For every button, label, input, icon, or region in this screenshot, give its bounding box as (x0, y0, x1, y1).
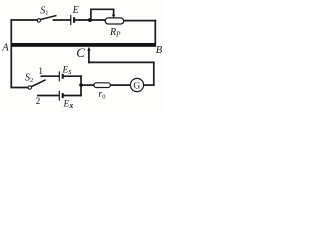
wire r0 to G (110, 84, 131, 86)
wire S1 contact to battery E (54, 19, 71, 21)
wire Ex to join rail (63, 95, 81, 97)
switch S2 (28, 80, 46, 89)
svg-text:C: C (76, 45, 85, 60)
wire galvo right vertical (153, 62, 155, 85)
wire Es to join rail (63, 75, 81, 77)
wire Rp pill to right corner (124, 20, 156, 22)
svg-text:2: 2 (36, 96, 41, 106)
svg-text:E: E (72, 5, 79, 16)
svg-text:Es: Es (62, 66, 72, 76)
wire top from corner to switch S1 (11, 19, 37, 21)
battery Es plates (59, 71, 62, 81)
wire bottom-left to S2 (11, 87, 27, 89)
wire left rail (10, 20, 12, 88)
svg-text:B: B (156, 45, 163, 56)
slider C arrowhead (87, 47, 90, 51)
wire wiper loop up and over (91, 9, 114, 19)
battery Ex plates (59, 91, 62, 101)
node junction dot bottom (79, 83, 83, 87)
resistor Rp body (105, 18, 124, 24)
wire slider C drop (88, 50, 90, 63)
wire junction to r0 (81, 84, 94, 86)
wire G to right drop (144, 84, 154, 86)
switch S1 (37, 16, 56, 23)
wire galvo horizontal under AB (89, 61, 154, 63)
wire join rail vertical (80, 76, 82, 95)
svg-text:G: G (133, 82, 140, 92)
svg-text:1: 1 (38, 66, 43, 76)
battery E plates (71, 15, 74, 25)
wire battery E to Rp pill (75, 19, 106, 21)
galvanometer G circle (130, 78, 143, 91)
wire contact2 to Ex (38, 95, 59, 97)
node A-B thick slide wire (11, 43, 156, 47)
svg-text:A: A (1, 42, 9, 53)
svg-text:Ex: Ex (63, 100, 74, 110)
resistor r0 body (94, 83, 110, 88)
wire right rail down to B (154, 21, 156, 44)
wire contact1 to Es (41, 75, 58, 77)
node junction dot top (88, 18, 92, 22)
wiper arrow of Rp (112, 15, 115, 19)
